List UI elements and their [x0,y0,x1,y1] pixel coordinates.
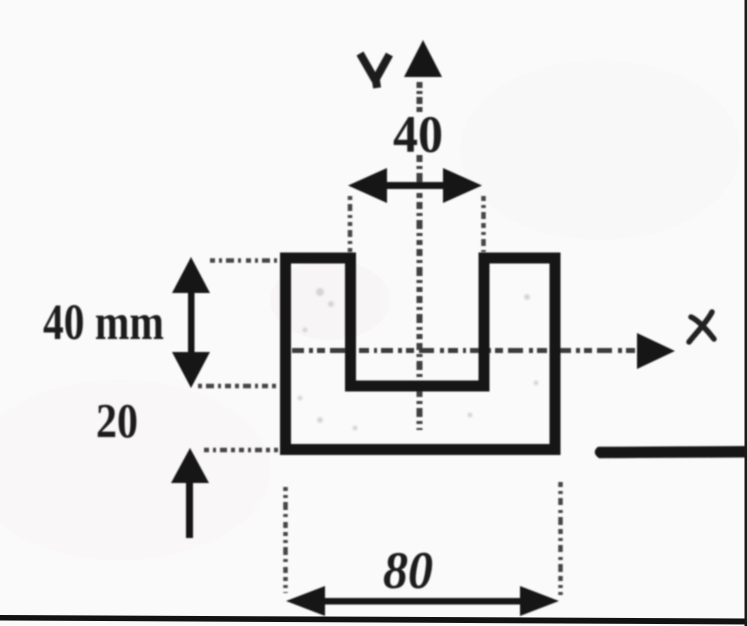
svg-text:40: 40 [393,106,443,164]
svg-text:20: 20 [96,393,138,448]
svg-text:40 mm: 40 mm [43,295,164,351]
svg-text:80: 80 [383,542,433,600]
